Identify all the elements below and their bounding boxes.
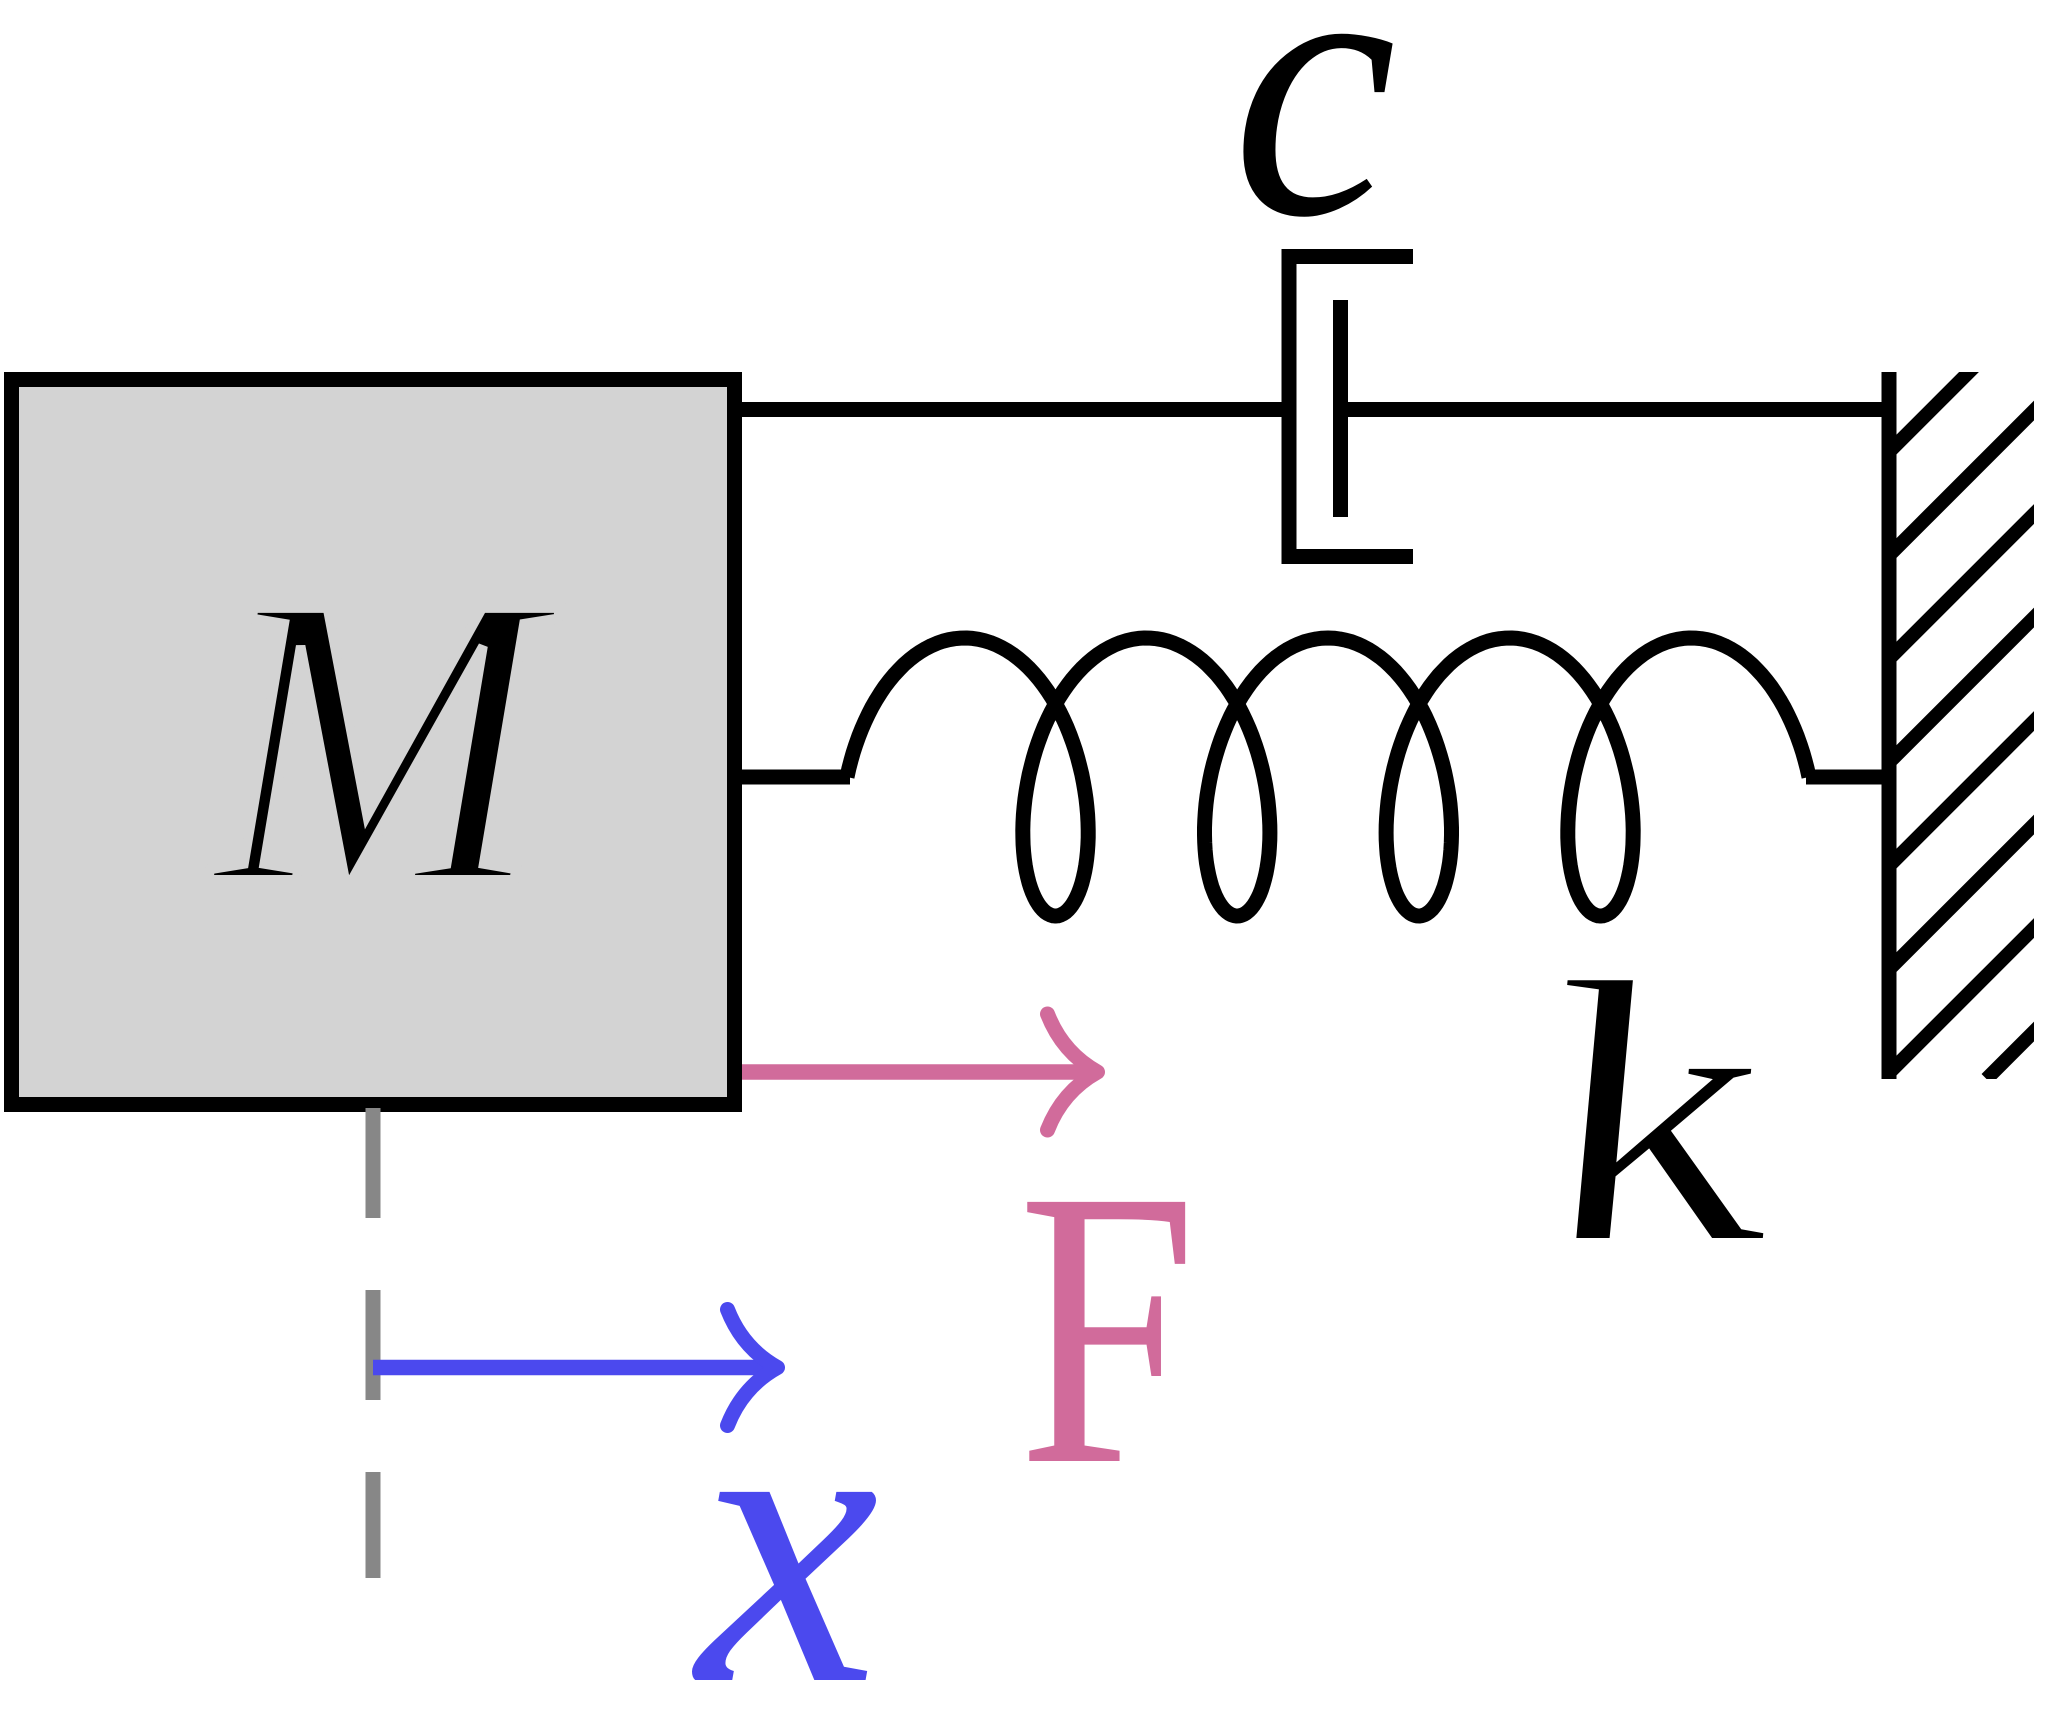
wire: damper to wall bbox=[1341, 402, 1897, 417]
wire: spring to wall bbox=[1806, 770, 1896, 785]
wire: mass to damper bbox=[742, 402, 1289, 417]
spring k coil bbox=[847, 638, 1809, 916]
force arrow F shaft bbox=[742, 1064, 1086, 1080]
displacement arrow x head bbox=[728, 1310, 778, 1426]
mass label M bbox=[207, 510, 565, 971]
svg-text:c: c bbox=[1232, 0, 1397, 296]
wire: mass to spring bbox=[742, 770, 850, 785]
mass M body bbox=[12, 380, 735, 1105]
wall hatching bbox=[1262, 360, 2046, 1079]
damper C cup bbox=[1289, 257, 1413, 557]
wall line bbox=[1882, 372, 1897, 1079]
svg-text:k: k bbox=[1516, 904, 1793, 1322]
spring label k bbox=[1516, 904, 1793, 1322]
reference dashed line bbox=[366, 1108, 381, 1578]
force label F bbox=[1018, 1109, 1197, 1547]
displacement label x bbox=[691, 1315, 879, 1726]
svg-text:F: F bbox=[1018, 1109, 1197, 1547]
svg-text:M: M bbox=[207, 510, 565, 971]
damper piston bbox=[1333, 300, 1348, 517]
force arrow F head bbox=[1048, 1014, 1098, 1130]
displacement arrow x shaft bbox=[373, 1360, 766, 1376]
svg-text:x: x bbox=[691, 1315, 879, 1726]
damper label c bbox=[1232, 0, 1397, 296]
